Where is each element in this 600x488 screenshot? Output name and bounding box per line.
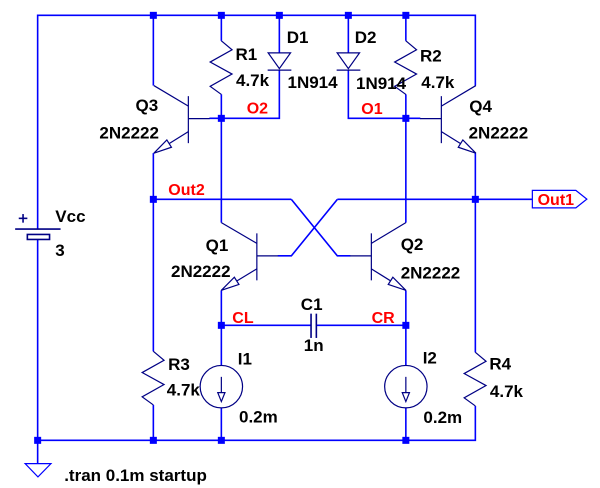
wire R1 bottom to node O2: [220, 94, 222, 118]
svg-text:3: 3: [55, 241, 64, 260]
wire top rail to R2 top: [405, 15, 407, 40]
wire cross diagonal Out2 to Q2 base: [291, 199, 350, 256]
wire top rail with left drop to Vcc and right drop to Q4 collector: [38, 15, 476, 229]
svg-text:Q4: Q4: [469, 97, 492, 116]
svg-text:4.7k: 4.7k: [421, 73, 455, 92]
svg-text:R3: R3: [168, 355, 190, 374]
voltage source Vcc battery: [15, 214, 60, 239]
wire R3 bottom to ground rail: [152, 405, 154, 440]
wire Q3 emitter to Out2 node down to R3 top: [152, 153, 154, 351]
svg-text:4.7k: 4.7k: [167, 380, 201, 399]
svg-text:1n: 1n: [304, 336, 324, 355]
svg-text:1N914: 1N914: [288, 73, 339, 92]
wire C1 right plate to CR: [316, 324, 406, 326]
svg-text:2N2222: 2N2222: [99, 124, 159, 143]
wire I2 bottom to ground rail: [405, 408, 407, 441]
svg-text:Q1: Q1: [206, 236, 229, 255]
resistor R4: [464, 352, 486, 406]
svg-text:R4: R4: [489, 354, 511, 373]
wire Q2 emitter down to CR node: [405, 290, 407, 325]
svg-text:Vcc: Vcc: [55, 207, 85, 226]
transistor Q2: [350, 223, 406, 291]
svg-text:O2: O2: [247, 101, 268, 118]
svg-text:C1: C1: [301, 295, 323, 314]
wire Q4 emitter down to Out1 node and R4 top: [474, 153, 476, 352]
resistor R1: [210, 41, 232, 95]
svg-text:2N2222: 2N2222: [171, 262, 231, 281]
resistor R2: [395, 41, 417, 95]
wire node O2 down to Q1 collector: [220, 118, 222, 222]
wire ground stub: [37, 440, 39, 463]
capacitor C1: [311, 314, 316, 338]
node Out1 flag: [532, 190, 587, 208]
svg-text:4.7k: 4.7k: [236, 71, 270, 90]
wire Out2 horizontal y=199: [153, 198, 291, 200]
svg-text:0.2m: 0.2m: [423, 408, 462, 427]
svg-text:Q2: Q2: [401, 235, 424, 254]
current source I1: [200, 365, 242, 407]
svg-text:2N2222: 2N2222: [469, 124, 529, 143]
svg-text:R2: R2: [420, 47, 442, 66]
ground: [25, 464, 51, 477]
transistor Q1: [221, 223, 278, 291]
svg-text:4.7k: 4.7k: [490, 382, 524, 401]
svg-text:D1: D1: [287, 28, 309, 47]
diode D2: [337, 53, 361, 70]
svg-text:D2: D2: [355, 28, 377, 47]
svg-text:CR: CR: [372, 310, 396, 327]
wire CL to C1 left plate: [221, 324, 311, 326]
transistor Q4: [420, 86, 476, 154]
wire cross diagonal Q1 base to Out1: [278, 199, 338, 256]
wire Q3 collector vertical x=153: [152, 15, 154, 85]
wire CR node to I2 top: [405, 325, 407, 366]
wire Q1 emitter down to CL node: [220, 290, 222, 325]
wire R2 bottom to node O1: [405, 94, 407, 118]
svg-text:Q3: Q3: [136, 96, 159, 115]
svg-text:2N2222: 2N2222: [401, 264, 461, 283]
svg-text:1N914: 1N914: [356, 74, 407, 93]
svg-text:.tran 0.1m startup: .tran 0.1m startup: [64, 466, 207, 485]
resistor R3: [142, 351, 164, 405]
junction nodes: [34, 12, 479, 444]
wire D1 cathode down and left to node O2: [209, 70, 279, 118]
wire CL node to I1 top: [220, 325, 222, 366]
svg-text:I2: I2: [423, 349, 437, 368]
transistor Q3: [154, 86, 210, 154]
diode D1: [268, 53, 292, 70]
svg-text:0.2m: 0.2m: [239, 407, 278, 426]
svg-text:O1: O1: [361, 101, 382, 118]
svg-text:CL: CL: [232, 310, 254, 327]
svg-text:R1: R1: [236, 45, 258, 64]
current source I2: [385, 365, 427, 407]
svg-text:I1: I1: [238, 350, 252, 369]
wire top rail to D2 anode: [347, 15, 349, 53]
wire bottom ground rail with Vcc drop and R4 rise: [38, 239, 476, 440]
wire I1 bottom to ground rail: [220, 408, 222, 441]
wire node O1 down to Q2 collector: [405, 118, 407, 222]
svg-text:Out2: Out2: [168, 182, 205, 199]
wire top rail to D1 anode: [278, 15, 280, 53]
wire top rail to R1 top: [220, 15, 222, 40]
wire D2 cathode down and right to node O1 toward Q4 base: [348, 70, 420, 118]
svg-text:Out1: Out1: [538, 192, 575, 209]
wire Out1 horizontal y=199 to flag: [337, 198, 532, 200]
